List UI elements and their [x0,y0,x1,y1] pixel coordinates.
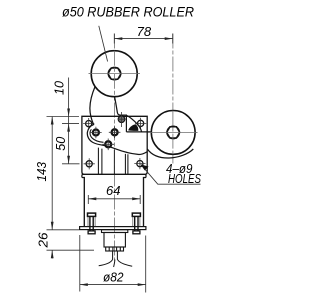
clevis pin [118,112,126,127]
dim 64 [88,183,140,204]
svg-text:143: 143 [34,161,49,181]
left stud [88,213,96,234]
cable gland step2 [104,233,125,248]
dim 143-26 extension lines [47,230,95,250]
switch body [82,178,146,227]
bolt hole bottom-left [84,158,95,169]
dim 26 [36,232,54,259]
centerline right roller horizontal [149,131,198,133]
right stud [132,213,140,234]
lever pivot inner arc [90,129,103,142]
leader 4-o9 holes [141,164,201,184]
roller bracket bottom line [126,131,150,133]
svg-text:HOLES: HOLES [168,171,201,186]
bolt hole bottom-right [134,158,145,169]
lever left outline [87,87,147,155]
svg-text:78: 78 [137,24,152,39]
label o50 rubber roller [62,5,194,20]
svg-text:10: 10 [52,80,67,95]
cable [113,251,118,260]
label 4-o9 holes [166,161,201,186]
centerline main vertical [113,34,115,261]
dim 10 [52,78,70,164]
wires [99,260,133,268]
svg-text:26: 26 [36,232,51,249]
svg-text:ø50 RUBBER ROLLER: ø50 RUBBER ROLLER [62,5,194,20]
switch body top cap [82,174,146,177]
inner verticals to plate bottom [98,148,128,175]
top roller [91,51,137,97]
top roller hex nut [89,51,140,97]
plunger axis dark line [113,150,115,175]
bolt hole top-left [83,118,94,129]
clevis bracket [120,115,126,132]
right roller hex nut [149,111,198,155]
svg-text:64: 64 [106,183,121,198]
dim 50 [53,136,70,164]
centerline top roller horizontal [89,73,140,75]
lower pin C [102,139,114,151]
centerline right roller vertical [172,34,174,165]
switch body bottom flange [80,227,146,230]
leader o50 label [99,26,108,62]
dim 143 [34,117,54,230]
lever right arm edge [115,97,121,115]
svg-text:ø82: ø82 [103,269,124,284]
bolt hole top-right [135,118,146,129]
svg-text:50: 50 [53,136,68,151]
lever swing arc under right roller [147,149,193,158]
cable gland step1 [102,230,128,233]
right roller [151,110,195,154]
mounting plate [82,116,147,174]
lever black wedge [128,124,138,131]
dim 10-50 extension lines [47,117,80,164]
center pin B [109,127,121,139]
dim o82 [80,235,146,293]
dim 78 [114,24,172,44]
cable gland nut [106,247,124,251]
lever upper line to right roller [126,115,141,132]
pivot pin A [90,127,102,139]
